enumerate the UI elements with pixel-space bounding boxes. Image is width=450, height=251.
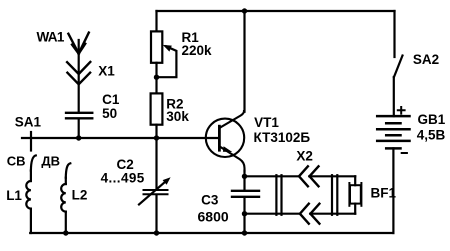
wire X2 bottom branch left	[245, 213, 300, 215]
wire C3 to bottom rail	[243, 198, 245, 233]
wire right rail top	[393, 11, 395, 57]
node L2/bottom junction	[63, 230, 68, 235]
node emitter/bottom-rail junction	[242, 230, 247, 235]
wire BF1 top lead	[354, 176, 356, 185]
switch SA1 common	[30, 132, 32, 151]
node R2/mid-wire junction	[154, 135, 159, 140]
node emitter/X2-top junction	[242, 174, 247, 179]
antenna WA1	[68, 33, 88, 54]
wire R1 to R2	[155, 63, 157, 94]
wire X2 bottom branch right	[310, 213, 355, 215]
node collector rail top junction	[242, 8, 247, 13]
wire C1 to mid rail	[78, 119, 80, 138]
svg-text:SA1: SA1	[15, 115, 42, 130]
R1 wiper arm	[157, 46, 177, 77]
wire hook to L2	[65, 178, 67, 184]
node C3/X2-bottom junction	[242, 211, 247, 216]
transistor VT1	[206, 111, 245, 171]
capacitor C2 variable	[139, 181, 168, 205]
battery plus sign	[398, 107, 405, 114]
wire C2 to bottom rail	[155, 195, 157, 233]
SA1 contact DV side	[66, 163, 71, 177]
wire mid rail (base bus)	[22, 137, 219, 139]
svg-text:4...495: 4...495	[101, 171, 145, 186]
earphone BF1	[349, 183, 361, 206]
svg-text:КТ3102Б: КТ3102Б	[254, 130, 311, 145]
wire hook to L1	[30, 171, 32, 182]
wire bottom rail	[30, 232, 393, 234]
capacitor C3	[232, 191, 259, 197]
wire X2 top branch left	[245, 175, 299, 177]
switch SA2	[394, 56, 403, 78]
svg-text:220k: 220k	[182, 43, 213, 58]
battery minus sign	[402, 152, 407, 154]
svg-text:30k: 30k	[166, 109, 189, 124]
svg-text:SA2: SA2	[413, 52, 439, 67]
svg-text:L2: L2	[72, 187, 88, 202]
capacitor C1	[66, 113, 92, 119]
node C2/bottom junction	[154, 230, 159, 235]
svg-text:ДВ: ДВ	[41, 153, 60, 168]
wire top rail	[157, 10, 395, 12]
svg-text:X1: X1	[98, 64, 115, 79]
wire L1 to bottom rail	[30, 209, 32, 233]
wire emitter down	[243, 171, 245, 190]
inductor L2	[61, 184, 66, 212]
resistor R2	[151, 93, 163, 124]
node R1/R2 wiper junction	[154, 75, 159, 80]
wire mid rail to C2	[155, 138, 157, 189]
svg-text:WA1: WA1	[37, 29, 65, 44]
wire collector to top rail	[243, 11, 245, 112]
svg-text:4,5В: 4,5В	[417, 127, 446, 142]
SA1 contact CB side	[31, 155, 36, 170]
wire antenna to C1	[78, 54, 80, 112]
wire top rail to R1	[155, 11, 157, 31]
svg-text:L1: L1	[6, 188, 22, 203]
inductor L1	[26, 181, 31, 209]
wire SA2 to battery	[393, 77, 395, 116]
svg-text:C1: C1	[102, 92, 120, 107]
wire X2 top branch right	[309, 175, 355, 177]
wire battery to bottom rail	[392, 148, 394, 233]
connector X2 cable bars left	[276, 175, 281, 215]
svg-text:VT1: VT1	[254, 115, 279, 130]
svg-text:X2: X2	[296, 149, 313, 164]
battery GB1	[377, 116, 409, 148]
wire BF1 bottom lead	[354, 204, 356, 214]
node C1/mid-wire junction	[76, 135, 81, 140]
svg-text:СВ: СВ	[7, 153, 26, 168]
connector X2 cable bars right	[332, 175, 337, 215]
svg-text:C3: C3	[201, 193, 219, 208]
resistor R1	[151, 31, 162, 62]
R1 wiper arrowhead	[163, 45, 172, 52]
svg-text:6800: 6800	[198, 208, 229, 224]
wire L2 to bottom rail	[65, 212, 67, 233]
C2 arrowhead	[163, 177, 171, 185]
wire R2 to mid rail	[155, 125, 157, 138]
connector X2 top contact	[299, 166, 319, 186]
connector X2 bottom contact	[300, 204, 320, 224]
connector X1	[67, 62, 90, 84]
svg-text:50: 50	[102, 106, 117, 121]
svg-text:GB1: GB1	[418, 112, 446, 127]
